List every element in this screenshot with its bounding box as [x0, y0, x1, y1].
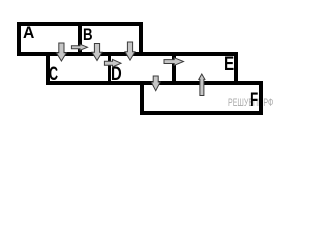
- bar 2 (cells C,D,E): [46, 52, 238, 85]
- label F: [250, 91, 258, 110]
- right arrow C->D: [104, 59, 121, 67]
- divider A|B: [78, 22, 82, 56]
- up arrow F->E: [199, 74, 205, 96]
- right arrow A->B: [71, 44, 87, 50]
- label C: [49, 65, 58, 84]
- divider D|E: [172, 52, 176, 85]
- bar 1 (cells A,B): [17, 22, 143, 56]
- bar 3 (cell F): [140, 81, 264, 115]
- right arrow D->E: [164, 58, 184, 66]
- label B: [83, 26, 93, 43]
- label D: [111, 65, 122, 84]
- label A: [23, 25, 34, 42]
- bar 3 right border over watermark: [259, 81, 263, 115]
- down arrow B->D: [125, 42, 135, 60]
- arrows overlay: [0, 0, 279, 133]
- watermark РЕШУВПР.РФ: [228, 98, 273, 109]
- label E: [224, 55, 234, 74]
- divider C|D: [108, 52, 112, 85]
- down arrow A->C: [56, 43, 66, 61]
- down arrow B->C: [92, 44, 102, 61]
- down arrow D->F: [151, 76, 160, 91]
